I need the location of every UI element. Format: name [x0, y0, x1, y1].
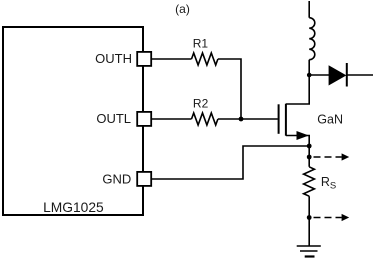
- svg-text:LMG1025: LMG1025: [43, 200, 104, 215]
- svg-text:(a): (a): [175, 2, 190, 16]
- svg-text:GND: GND: [102, 171, 131, 186]
- svg-text:R1: R1: [193, 37, 209, 51]
- svg-text:R2: R2: [193, 97, 209, 111]
- svg-text:OUTL: OUTL: [96, 111, 131, 126]
- svg-text:OUTH: OUTH: [95, 51, 132, 66]
- svg-text:GaN: GaN: [317, 113, 343, 127]
